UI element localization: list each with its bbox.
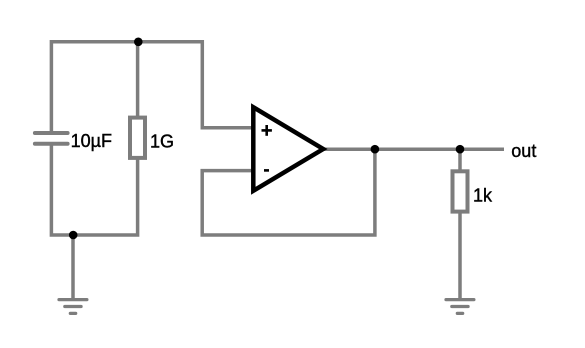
ground symbol (left) <box>59 300 87 314</box>
op-amp U1 triangle body <box>253 107 323 191</box>
svg-text:10µF: 10µF <box>71 131 112 151</box>
resistor R2 body (1k) <box>453 171 468 211</box>
svg-text:out: out <box>511 141 536 161</box>
ground symbol (right) <box>446 300 474 314</box>
node: junction dot at top rail / R1 <box>134 38 143 47</box>
wire: resistor R2 bottom lead / ground stem (right) <box>458 210 462 299</box>
op-amp U1 minus input marker <box>264 169 269 172</box>
node: junction dot at output / feedback <box>371 145 380 154</box>
wire: ground stem (left) <box>71 235 75 299</box>
wire: resistor R1 top lead <box>136 42 140 119</box>
wire: resistor R2 top lead <box>458 149 462 173</box>
wire: top rail from capacitor top, across, down to op-amp + input <box>51 42 254 133</box>
wire: feedback loop from op-amp - input down, across, up to output <box>202 149 375 235</box>
node: junction dot at output / R2 <box>456 145 465 154</box>
wire: capacitor bottom lead, bottom rail, resistor R1 bottom lead <box>51 144 137 235</box>
svg-text:1G: 1G <box>150 131 174 151</box>
capacitor C1 plates <box>35 133 68 144</box>
node: junction dot at bottom rail / ground <box>69 231 78 240</box>
wire: output from op-amp tip to out terminal <box>320 147 504 151</box>
svg-text:1k: 1k <box>473 185 493 205</box>
op-amp U1 plus input marker <box>262 125 272 136</box>
resistor R1 body (1G) <box>130 118 145 158</box>
